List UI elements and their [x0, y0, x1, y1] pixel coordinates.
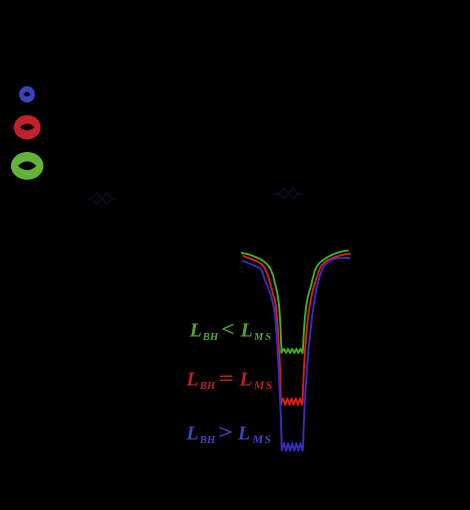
svg-text:BH: BH: [199, 381, 216, 392]
svg-text:L: L: [240, 320, 253, 342]
light curve green (L_BH < L_MS): [241, 251, 349, 354]
light curve blue (L_BH > L_MS): [242, 258, 350, 451]
svg-text:>: >: [218, 421, 233, 444]
svg-text:L: L: [185, 422, 198, 444]
svg-text:<: <: [221, 317, 234, 341]
light curve red (L_BH = L_MS): [242, 254, 350, 405]
green einstein ring image: [11, 152, 44, 180]
svg-text:MS: MS: [252, 432, 273, 446]
svg-text:=: =: [218, 367, 234, 390]
svg-text:MS: MS: [253, 378, 274, 392]
dark source-star schematic right: [275, 188, 301, 198]
red einstein ring image: [14, 115, 41, 139]
label L_BH < L_MS: [189, 317, 273, 343]
svg-text:L: L: [239, 368, 252, 390]
label L_BH = L_MS: [185, 367, 273, 392]
svg-text:L: L: [189, 320, 202, 342]
svg-text:L: L: [237, 422, 250, 444]
svg-text:MS: MS: [253, 332, 273, 343]
blue einstein ring image: [19, 86, 35, 102]
svg-text:L: L: [185, 368, 198, 390]
svg-text:BH: BH: [202, 332, 219, 343]
label L_BH > L_MS: [185, 421, 272, 445]
dark source-star schematic left: [88, 193, 116, 204]
svg-text:BH: BH: [199, 435, 216, 446]
